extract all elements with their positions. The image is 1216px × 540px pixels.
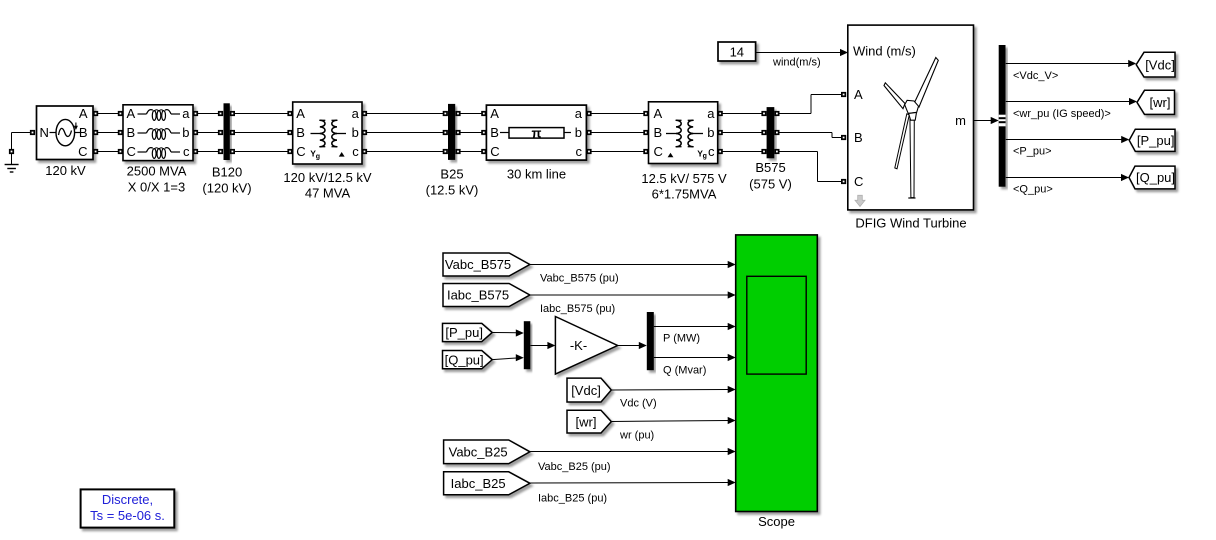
label Iabc_B25 (pu) [538,493,607,505]
label 47 MVA [305,186,351,201]
goto tag [Vdc] [1136,52,1175,77]
from tag Vabc_B25 [444,440,530,464]
block DFIG Wind Turbine [848,25,974,210]
svg-text:47 MVA: 47 MVA [305,186,351,201]
wire [P_pu] to mux [492,329,524,336]
svg-text:[Vdc]: [Vdc] [571,383,601,398]
svg-text:π: π [532,125,542,140]
svg-text:Vdc (V): Vdc (V) [620,398,657,410]
svg-text:(575 V): (575 V) [749,177,792,192]
wire 30 km line a to transformer 12.5kV/575V [586,111,648,116]
svg-text:6*1.75MVA: 6*1.75MVA [652,187,717,202]
label Vabc_B575 (pu) [540,273,619,285]
label 2500 MVA [127,163,187,178]
svg-text:b: b [352,125,359,140]
block transformer 120kV/12.5kV 47 MVA [293,102,362,164]
svg-text:A: A [127,106,136,121]
wire 30 km line c to transformer 12.5kV/575V [586,149,648,154]
svg-text:Vabc_B575: Vabc_B575 [445,257,511,272]
wire Vabc_B575 to scope [530,261,736,268]
label B120 [212,165,242,180]
wire bus B25 A to 30 km line [455,111,486,116]
goto tag [Q_pu] [1129,166,1175,189]
svg-text:C: C [78,144,87,159]
label Vdc (V) [620,398,657,410]
svg-text:b: b [575,125,582,140]
svg-text:Iabc_B575: Iabc_B575 [447,288,509,303]
wire bus selector <wr_pu (IG speed)> to goto [wr] [1006,98,1137,105]
svg-text:P (MW): P (MW) [663,333,700,345]
svg-text:[P_pu]: [P_pu] [1137,133,1175,148]
from tag [Q_pu] [443,351,493,369]
wire DFIG m to bus selector [974,117,999,124]
svg-text:a: a [352,106,360,121]
svg-text:Discrete,: Discrete, [102,492,153,507]
svg-text:2500 MVA: 2500 MVA [127,163,187,178]
label wind(m/s) [772,57,821,69]
svg-text:Vabc_B25 (pu): Vabc_B25 (pu) [538,461,611,473]
label <Q_pu> [1013,184,1053,196]
from tag Iabc_B575 [443,284,530,307]
svg-text:a: a [707,106,715,121]
mux [524,321,531,369]
svg-text:B: B [654,125,663,140]
bus B575 [767,107,775,158]
block 30 km line [486,105,586,160]
svg-text:A: A [79,106,88,121]
svg-text:<P_pu>: <P_pu> [1013,146,1052,158]
svg-text:[wr]: [wr] [1150,95,1171,110]
label Q (Mvar) [663,365,706,377]
label Iabc_B575 (pu) [540,303,615,315]
svg-text:A: A [854,87,863,102]
svg-text:120 kV: 120 kV [45,163,86,178]
wire source A to 2500 MVA block [93,111,123,116]
svg-text:-K-: -K- [570,338,587,353]
svg-text:Iabc_B25 (pu): Iabc_B25 (pu) [538,493,607,505]
goto tag [P_pu] [1129,129,1175,151]
wire transformer 120kV/12.5kV c to bus B25 [362,149,448,154]
svg-text:(12.5 kV): (12.5 kV) [426,183,479,198]
svg-text:<wr_pu (IG speed)>: <wr_pu (IG speed)> [1013,108,1111,120]
svg-text:C: C [296,144,305,159]
svg-text:b: b [707,125,714,140]
svg-text:Ts = 5e-06 s.: Ts = 5e-06 s. [90,508,165,523]
wire bus B575 b to DFIG B [774,130,846,140]
svg-text:14: 14 [730,45,744,60]
wire transformer 12.5kV/575V c to bus B575 [718,149,767,154]
from tag [wr] [567,410,611,433]
wire Iabc_B25 to scope [530,479,736,486]
svg-text:a: a [182,106,190,121]
label Scope [758,514,795,529]
gain -K- [555,317,617,375]
block transformer 12.5kV/575V 6*1.75MVA [649,102,718,164]
scope block [736,235,818,512]
block 2500 MVA source impedance [123,105,193,161]
wire transformer 120kV/12.5kV a to bus B25 [362,111,448,116]
label 6*1.75MVA [652,187,717,202]
wire [Vdc] to scope [611,386,735,393]
svg-text:Vabc_B25: Vabc_B25 [449,445,508,460]
svg-text:[P_pu]: [P_pu] [445,325,483,340]
label <Vdc_V> [1013,70,1058,82]
svg-text:c: c [183,144,190,159]
from tag Vabc_B575 [443,253,530,276]
svg-text:C: C [854,174,863,189]
svg-text:[Q_pu]: [Q_pu] [1136,170,1175,185]
wire Iabc_B575 to scope [530,291,736,298]
wire 2500 MVA c to bus B120 [193,149,223,154]
svg-text:c: c [352,144,359,159]
svg-text:B25: B25 [440,167,463,182]
svg-text:[Q_pu]: [Q_pu] [445,352,484,367]
wire ground to source N input [12,130,36,149]
svg-text:m: m [955,113,966,128]
wire bus B120 C to transformer 120kV/12.5kV [230,149,293,154]
bus selector [999,45,1006,187]
wire bus selector <P_pu> to goto [P_pu] [1006,136,1129,143]
goto tag [wr] [1137,90,1175,114]
wire source C to 2500 MVA block [93,149,123,154]
svg-text:A: A [296,106,305,121]
svg-text:DFIG Wind Turbine: DFIG Wind Turbine [855,216,966,231]
label (575 V) [749,177,792,192]
wire P (MW) to scope [654,323,736,330]
svg-text:B120: B120 [212,165,242,180]
wire bus B575 a to DFIG A [774,92,846,116]
svg-text:B: B [854,130,863,145]
wire transformer 12.5kV/575V a to bus B575 [718,111,767,116]
label 12.5 kV/ 575 V [641,171,727,186]
wire bus B120 A to transformer 120kV/12.5kV [230,111,293,116]
svg-text:12.5 kV/ 575 V: 12.5 kV/ 575 V [641,171,727,186]
demux [647,312,654,370]
wire mux to gain [531,342,556,349]
svg-text:A: A [490,106,499,121]
svg-text:Iabc_B25: Iabc_B25 [451,476,506,491]
wire gain to demux [618,342,647,349]
svg-text:c: c [576,144,583,159]
svg-text:c: c [708,144,715,159]
from tag Iabc_B25 [444,472,530,495]
svg-text:N: N [40,125,49,140]
svg-text:Iabc_B575 (pu): Iabc_B575 (pu) [540,303,615,315]
svg-text:wind(m/s): wind(m/s) [772,57,821,69]
powergui block Discrete Ts = 5e-06 s [81,489,175,527]
svg-text:Vabc_B575 (pu): Vabc_B575 (pu) [540,273,619,285]
svg-text:B: B [296,125,305,140]
svg-text:B: B [79,125,88,140]
label wr (pu) [619,430,654,442]
label <wr_pu (IG speed)> [1013,108,1111,120]
label P (MW) [663,333,700,345]
wire bus selector <Q_pu> to goto [Q_pu] [1006,174,1129,181]
wire bus B575 c to DFIG C [774,149,846,184]
label Vabc_B25 (pu) [538,461,611,473]
wire constant 14 to DFIG Wind input [756,49,848,56]
label (12.5 kV) [426,183,479,198]
svg-text:C: C [127,144,136,159]
ground [5,149,19,172]
wire bus B120 B to transformer 120kV/12.5kV [230,130,293,135]
wire [wr] to scope [611,417,735,424]
wire [Q_pu] to mux [492,354,524,361]
svg-text:C: C [490,144,499,159]
svg-text:A: A [654,106,663,121]
svg-text:Wind (m/s): Wind (m/s) [853,44,916,59]
svg-text:Q (Mvar): Q (Mvar) [663,365,706,377]
wire 30 km line b to transformer 12.5kV/575V [586,130,648,135]
svg-text:a: a [575,106,583,121]
svg-text:g: g [703,153,707,160]
svg-text:30 km line: 30 km line [507,167,566,182]
wire 2500 MVA b to bus B120 [193,130,223,135]
svg-text:B: B [490,125,499,140]
svg-text:<Q_pu>: <Q_pu> [1013,184,1053,196]
svg-text:[Vdc]: [Vdc] [1145,57,1175,72]
from tag [P_pu] [443,323,493,341]
label B575 [755,160,785,175]
source block 120 kV [37,106,94,160]
svg-text:B: B [127,125,136,140]
svg-text:wr (pu): wr (pu) [619,430,654,442]
svg-text:<Vdc_V>: <Vdc_V> [1013,70,1058,82]
svg-text:B575: B575 [755,160,785,175]
svg-text:(120 kV): (120 kV) [202,181,251,196]
svg-text:C: C [654,144,663,159]
label X0/X1=3 [128,179,185,194]
label 120 kV/12.5 kV [283,170,371,185]
label <P_pu> [1013,146,1052,158]
label 30 km line [507,167,566,182]
label B25 [440,167,463,182]
wire bus B25 C to 30 km line [455,149,486,154]
svg-text:b: b [182,125,189,140]
wire 2500 MVA a to bus B120 [193,111,223,116]
bus B25 [448,104,455,160]
svg-text:X 0/X 1=3: X 0/X 1=3 [128,179,185,194]
from tag [Vdc] [567,378,611,402]
wire bus B25 B to 30 km line [455,130,486,135]
constant block 14 [718,42,756,61]
wire transformer 120kV/12.5kV b to bus B25 [362,130,448,135]
wire source B to 2500 MVA block [93,130,123,135]
wire Q (Mvar) to scope [654,354,736,361]
label DFIG Wind Turbine [855,216,966,231]
bus B120 [224,103,230,160]
svg-text:[wr]: [wr] [576,414,597,429]
wire transformer 12.5kV/575V b to bus B575 [718,130,767,135]
svg-text:120 kV/12.5 kV: 120 kV/12.5 kV [283,170,371,185]
wire bus selector <Vdc_V> to goto [Vdc] [1006,60,1136,67]
label 120 kV [45,163,86,178]
svg-text:g: g [316,153,320,160]
wire Vabc_B25 to scope [530,448,736,455]
label (120 kV) [202,181,251,196]
svg-text:Scope: Scope [758,514,795,529]
